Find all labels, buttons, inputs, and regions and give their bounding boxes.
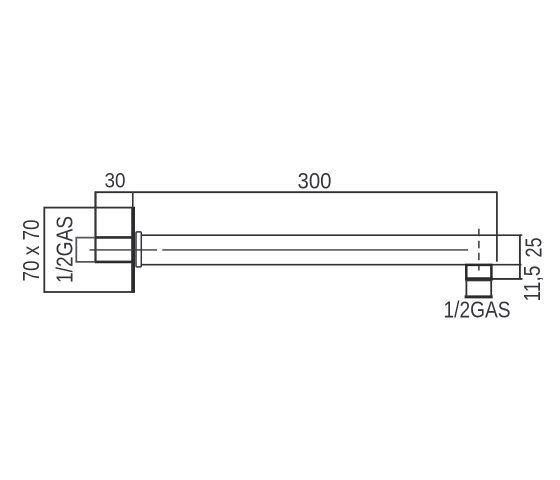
center line horizontal dash 2: [162, 249, 468, 251]
outlet nut bottom thick line: [465, 277, 493, 280]
collar at flange: [136, 232, 141, 267]
outlet thread lower rect: [466, 280, 491, 296]
svg-text:1/2GAS: 1/2GAS: [51, 216, 77, 283]
extension line right x=496.9 / elbow joint line: [496, 191, 498, 261]
wall nipple outer thin part: [76, 238, 95, 262]
tube bottom line: [141, 264, 521, 266]
outlet thread bottom thick line: [465, 295, 493, 298]
extension line mid x=132.7: [132, 191, 134, 208]
outlet nut upper rect: [466, 265, 491, 279]
svg-text:300: 300: [298, 169, 332, 194]
wall nipple bore bold top: [95, 236, 134, 239]
elbow bottom shelf: [491, 278, 522, 280]
svg-text:30: 30: [105, 170, 126, 193]
dimension line 30/300: [95, 191, 497, 193]
extension line left x=95 / flange left edge: [94, 191, 96, 262]
elbow right edge: [519, 234, 521, 279]
flange right edge thick band: [131, 207, 135, 293]
svg-text:25: 25: [521, 238, 547, 258]
svg-text:1/2GAS: 1/2GAS: [444, 297, 511, 323]
tube top line: [141, 234, 522, 236]
svg-text:70 x 70: 70 x 70: [18, 220, 44, 282]
outlet vertical center line dashed: [478, 229, 480, 271]
square escutcheon 70x70 front view: [44, 208, 134, 292]
wall nipple bore bold bottom: [95, 261, 134, 264]
svg-text:11,5: 11,5: [519, 266, 545, 302]
center line horizontal dash 1: [90, 249, 157, 251]
